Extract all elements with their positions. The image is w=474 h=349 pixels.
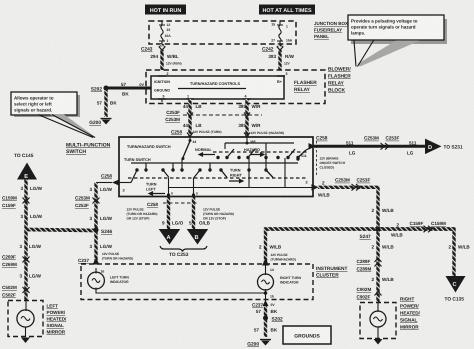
switch internal dashed row (hazard) (213, 151, 309, 153)
connector C253F/C253M (in-line, center) (165, 110, 262, 122)
label HAZARD with arrow (244, 148, 264, 156)
splice dot overlay S246 (94, 228, 99, 233)
flasher relay U1: TURN/HAZARD CONTROLS (151, 76, 284, 99)
wire 9 LG/O to A (162, 197, 184, 230)
connector C253M/C253F (left wire) (75, 196, 113, 222)
ground (right mirror) (374, 339, 383, 345)
instrument cluster (dashed box) (81, 264, 313, 300)
connector arrow E (up) (17, 163, 37, 181)
note: 12V (BRAKE ON/OFF SWITCH CLOSED) (317, 141, 346, 176)
splice S247 (360, 227, 381, 240)
wire 3 LG/W left branch down (19, 230, 41, 302)
splice dot overlay S202 upper (104, 86, 109, 91)
splice S202 (lower) (263, 316, 283, 323)
right power/heated/signal mirror (dashed box) (360, 303, 396, 339)
fuse F2 (15A) (271, 21, 293, 44)
label TURN RIGHT with arrow (229, 169, 243, 183)
wire 57 BK below S202 (254, 328, 278, 333)
splice S202 (upper) (91, 86, 109, 93)
connector C243 (141, 46, 165, 53)
pin 1 (186, 95, 194, 100)
callout note 2: Provides a pulsating voltage (348, 15, 444, 40)
brace TO C253 (160, 246, 207, 258)
wire from switch pin3 via C258 down to S246 (89, 174, 112, 232)
pin 2 exit arrow (right) (306, 181, 319, 191)
switch blade from pin44 (182, 141, 191, 160)
blower/flasher relay block (dashed box) (146, 70, 325, 104)
wire 57 BK to S202 (256, 306, 278, 337)
wire LG/W horizontal to S246 (26, 230, 96, 231)
header: HOT AT ALL TIMES box (259, 5, 315, 15)
junction box fuse/relay panel (dashed box) (149, 21, 296, 44)
wire 3 LG/W from S246 down to left indicator (78, 230, 133, 265)
wire 511 LG to D (314, 136, 426, 156)
pin 2 (ignition) (158, 72, 169, 76)
wire 2 W/LB from S247 down (371, 229, 394, 302)
pin 44 entry (189, 137, 197, 144)
connector arrow B (187, 229, 209, 245)
pin 5 (ground) (158, 95, 166, 103)
label: BLOWER/FLASHER RELAY BLOCK (328, 67, 351, 94)
left power/heated/signal mirror (dashed box) (8, 301, 43, 338)
connector C159M/C159F (left) (2, 196, 43, 220)
splice S246 (94, 228, 113, 235)
turn row contacts and blades (131, 158, 273, 183)
wire 2 W/LB horizontal to corner (318, 178, 380, 198)
wire 294 W/BL (150, 44, 181, 76)
pin 3 (B+) (277, 72, 288, 76)
connector symbol overlay C242 (277, 47, 284, 54)
label NORMAL with arrow (195, 148, 215, 156)
note 12V PULSE (right of B) (203, 208, 234, 221)
connector C902M/C902F (357, 287, 382, 300)
GROUNDS box (283, 326, 331, 344)
splice dot overlay S247 (376, 227, 381, 232)
connector arrow C TO C135 (445, 276, 466, 303)
wire 383 R/W (268, 44, 294, 76)
label: MULTI-FUNCTION SWITCH (66, 143, 111, 156)
wire 5 O/LB to B (189, 197, 211, 230)
connector C269F/C269M (2, 255, 42, 279)
wire 2 W/LB from bus corner down to right turn indicator (259, 227, 296, 275)
wire: left lamp to pin 15 node (96, 288, 266, 294)
ground G200 (left) (89, 119, 111, 127)
label INSTRUMENT CLUSTER (316, 266, 348, 279)
callout 1 tail (38, 115, 96, 138)
label: JUNCTION BOX FUSE/RELAY PANEL (314, 21, 348, 39)
right turn indicator lamp (258, 268, 302, 299)
internal wire to bottom pin 5 (193, 178, 195, 197)
hazard row contacts and blades (216, 143, 306, 159)
junction dots at switch bottom pins (167, 193, 170, 196)
junction at pin 15 (264, 291, 268, 295)
connector arrow A (159, 229, 181, 245)
header: HOT IN RUN box (145, 5, 186, 15)
ground G200 (bottom) (247, 340, 271, 348)
switch internal mid bus (131, 162, 298, 164)
label: FLASHER RELAY (294, 80, 317, 93)
multi-function switch box (119, 137, 313, 197)
splice dot overlay S202 lower (263, 316, 268, 321)
connector C502M/C502F (2, 285, 30, 298)
left turn indicator lamp (88, 268, 130, 289)
label TURN LEFT with arrow (146, 183, 165, 196)
connector C289F/C289M (357, 258, 395, 282)
pin 9 and pin 5 bottom labels (171, 192, 198, 196)
connector C258 (switch bottom, dashed) (147, 202, 199, 207)
pin 4 (243, 95, 251, 100)
callout note 2 shadow (351, 19, 447, 44)
pin 3 exit arrow (left) (112, 179, 131, 192)
callout note 1: Allows operator... (11, 92, 77, 115)
connector symbol overlay C243 (159, 47, 166, 54)
wire 57 BK from S202 to flasher (0V) (106, 82, 151, 97)
wire 385 W/R (flasher pin4 to switch) (238, 99, 261, 137)
wire 57 BK to G200 (97, 90, 117, 117)
switch internal dashed row (turn) (128, 177, 308, 179)
connector C258 (switch top) (171, 130, 284, 137)
fuse F1 (10A) (159, 21, 171, 44)
note 12V PULSE (left of A) (127, 208, 158, 221)
switch internal top bus (225, 142, 294, 144)
ground (left mirror) (21, 338, 30, 344)
connector arrow D TO S231 (425, 139, 463, 155)
callout 2 tail (354, 41, 420, 67)
wire 44 LB (flasher pin1 to switch) (183, 99, 202, 137)
callout note 1 shadow (14, 95, 80, 117)
label RIGHT POWER/HEATED/SIGNAL MIRROR (400, 297, 421, 330)
wire 3 LG/W (E down to bus corner) (20, 180, 42, 232)
main W/LB bus (horizontal) (266, 227, 455, 231)
wire 2 W/LB down to C (448, 227, 470, 276)
pin 385 entry (246, 137, 256, 145)
internal bottom bus to pin 2 (169, 158, 314, 188)
label LEFT POWER/HEATED/SIGNAL MIRROR (47, 304, 68, 335)
wire 2 W/LB vertical to S247 (371, 187, 394, 229)
connector C242 (262, 46, 283, 53)
pin 511 exit arrow (right) (296, 143, 315, 161)
connector C159F/C159M (right bus) (391, 221, 446, 238)
wire pin15 to C237 (0V) (252, 293, 275, 308)
internal wire to bottom pin 9 (168, 178, 170, 197)
